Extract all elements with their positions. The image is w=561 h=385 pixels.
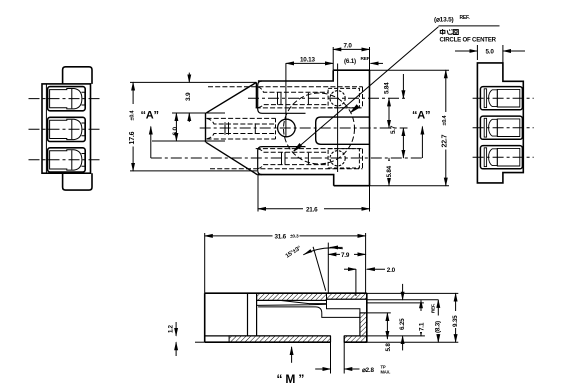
hatch divider [326, 293, 328, 303]
extension line right top (22.7) [370, 69, 450, 71]
svg-text:5.7: 5.7 [390, 125, 397, 134]
right view cavity 2 [473, 116, 534, 139]
top terminal box dashed [328, 88, 359, 107]
svg-text:5.84: 5.84 [384, 82, 391, 94]
text 5.84 bottom [386, 161, 394, 178]
top wall hatch left [257, 293, 327, 300]
right view center line 2 [473, 127, 534, 129]
top channel center line [248, 97, 408, 99]
bottom boss outline [258, 147, 306, 175]
hole edges [330, 336, 332, 342]
top boss outline [258, 81, 306, 113]
text 7.1 [418, 311, 426, 332]
vertical line through top/bottom circles [337, 64, 339, 173]
rear block right edge [256, 293, 258, 336]
main body right edge [369, 70, 371, 186]
svg-text:7.0: 7.0 [344, 43, 353, 50]
top channel H tick [277, 92, 279, 105]
middle channel stop tick [254, 123, 256, 133]
section left edge [204, 293, 206, 342]
svg-text:±0.3: ±0.3 [290, 234, 299, 240]
extension line right bottom (22.7) [370, 185, 450, 187]
ext lines right side [367, 292, 459, 294]
wedge lower line [257, 304, 327, 305]
svg-text:REF.: REF. [361, 56, 371, 62]
svg-text:9.35: 9.35 [452, 315, 459, 327]
main body bottom edge right portion [334, 185, 370, 187]
nose top edge + 6.0 ext [172, 112, 225, 114]
top channel stop tick [307, 93, 309, 104]
top wall hatch right [327, 293, 367, 299]
dim 7.1 [420, 300, 422, 336]
svg-text:5.0: 5.0 [486, 49, 495, 56]
text 7.9 [340, 251, 354, 259]
top-left step of right portion [258, 70, 333, 81]
text 17.6 [127, 104, 135, 147]
middle channel H tick [224, 122, 226, 134]
bottom-left step of right portion [257, 175, 334, 186]
right view terminal 3 [484, 148, 486, 167]
top wall bottom line left [257, 299, 327, 301]
text 21.6 [303, 204, 324, 213]
hatched areas [229, 293, 367, 342]
left view terminal 1 [50, 89, 82, 109]
dim (8.3) [437, 300, 439, 342]
svg-text:±0.4: ±0.4 [442, 114, 448, 125]
text 31.6 [273, 232, 300, 241]
dim 6.25 [386, 313, 388, 339]
section top edge [205, 292, 367, 294]
bottom circle (dashed) [330, 151, 345, 166]
svg-text:21.6: 21.6 [306, 206, 318, 213]
right view center line 1 [473, 97, 534, 99]
bottom terminal box dashed [328, 149, 359, 168]
A arrow left [150, 127, 152, 159]
A arrow right [421, 127, 423, 159]
dim 10.13 [286, 62, 333, 64]
svg-text:17.6: 17.6 [129, 131, 136, 144]
angle 15 deg vertical ref [327, 243, 329, 294]
text 22.7 [440, 112, 447, 150]
dim 2.0 [355, 269, 357, 296]
svg-text:MAX.: MAX. [381, 369, 391, 374]
svg-text:2.0: 2.0 [387, 267, 396, 274]
dim mid-bottom [402, 128, 404, 158]
dim 5.7 [388, 98, 390, 128]
dim 5.8 arrows [402, 284, 404, 300]
svg-text:(6.1): (6.1) [344, 58, 356, 65]
left portion top edge + 17.6 extension [130, 81, 256, 83]
dim 21.6 [257, 175, 259, 212]
left view center line 3 [29, 159, 101, 161]
left view center line 2 [29, 128, 101, 130]
rear cutout window [316, 117, 370, 144]
wedge upper line [257, 300, 327, 303]
left view cavity 1 [29, 87, 101, 111]
text (8.3) REF. [433, 316, 442, 335]
svg-text:7.1: 7.1 [418, 322, 425, 331]
left view top tab [63, 67, 92, 84]
leader line for circle of center [294, 26, 500, 151]
bottom wall hatch right [344, 336, 367, 342]
bottom channel stop tick [307, 153, 309, 164]
svg-text:CIRCLE OF CENTER: CIRCLE OF CENTER [440, 37, 497, 44]
dim 7.0 [332, 47, 334, 70]
left view body outline [42, 84, 91, 173]
svg-text:6.25: 6.25 [399, 318, 406, 330]
vertical line through middle circle (10.13 ext) [285, 63, 287, 137]
M arrow [291, 347, 293, 363]
right view center line 3 [473, 156, 534, 158]
bottom wall hatch left [229, 336, 330, 342]
svg-text:“A”: “A” [141, 110, 159, 122]
dim (6.1) arrow [371, 62, 384, 64]
right view terminal 1 [484, 89, 486, 108]
nose bottom edge + 6.0 ext [152, 140, 225, 142]
middle circle (solid) [278, 119, 296, 137]
middle channel (dashed) [200, 118, 408, 139]
svg-text:(⌀13.5): (⌀13.5) [434, 17, 454, 24]
dim 31.6 [204, 233, 206, 293]
right view cavity 1 [473, 87, 534, 110]
svg-text:3.9: 3.9 [185, 92, 192, 101]
svg-text:(8.3): (8.3) [435, 321, 442, 333]
bottom channel (dashed) [210, 149, 363, 169]
middle channel center line [200, 127, 408, 129]
angle 15 deg slant line [313, 247, 326, 291]
vertical edge at chamfer top [255, 82, 257, 108]
section line A-A [151, 127, 423, 159]
right wall hatch column [360, 313, 367, 336]
bottom wall top line [205, 335, 331, 337]
bottom wall lip lines [195, 341, 205, 343]
svg-text:1.2: 1.2 [169, 324, 175, 333]
left view cavity 2 [29, 117, 101, 141]
label CJK center circle (drawn strokes) [440, 29, 458, 35]
slot floor with radius [258, 307, 360, 318]
text 9.35 [450, 311, 459, 328]
left view center line 1 [29, 98, 101, 100]
svg-text:31.6: 31.6 [275, 233, 287, 240]
dim 1.2 [175, 322, 177, 336]
dim 7.9 [328, 253, 365, 255]
left view cavity 3 [29, 148, 101, 172]
right view body outline [477, 63, 523, 183]
angle arc [303, 248, 343, 255]
section right edge [366, 293, 368, 342]
svg-text:22.7: 22.7 [442, 134, 449, 147]
dim 5.0 [455, 45, 525, 78]
left view bottom tab [63, 173, 92, 190]
bottom channel H tick [281, 152, 283, 165]
svg-text:“ M ”: “ M ” [277, 372, 305, 385]
dim 5.84 bottom [388, 158, 390, 186]
left portion bottom edge + 17.6 extension [130, 170, 257, 172]
svg-text:10.13: 10.13 [300, 57, 315, 64]
top wall bottom line right [327, 298, 367, 300]
section bottom edge [205, 341, 331, 343]
left view terminal 2 [50, 119, 82, 139]
dim 3.9 [188, 73, 190, 83]
rear block inner line [247, 293, 249, 336]
angle right arrow [330, 246, 343, 248]
top circle (dashed) [330, 91, 345, 106]
svg-text:⌀2.8: ⌀2.8 [362, 367, 374, 374]
circle of center (big dashed circle) [284, 93, 355, 164]
dim 22.7 [445, 70, 447, 186]
bottom view dimensions [176, 233, 458, 374]
dim 6.0 [175, 113, 177, 141]
dim 5.84 top [402, 74, 404, 98]
svg-text:REF.: REF. [460, 15, 471, 21]
dim phi 2.8 hole [330, 342, 332, 373]
top chamfer diagonal [206, 82, 256, 112]
bottom chamfer diagonal [206, 142, 257, 174]
dim 9.35 [455, 293, 457, 342]
main body top edge right portion [333, 69, 369, 71]
svg-text:6.0: 6.0 [172, 126, 179, 135]
right wall column outline [360, 313, 367, 336]
top channel (dashed) [208, 87, 408, 108]
left view terminal 3 [50, 150, 82, 170]
dim 17.6 [132, 82, 134, 170]
svg-text:“A”: “A” [412, 110, 430, 122]
svg-text:5.84: 5.84 [386, 165, 393, 177]
right view cavity 3 [473, 146, 534, 169]
inner step to slot [327, 304, 360, 313]
svg-text:5.8: 5.8 [385, 343, 392, 352]
left view inner wall line [45, 84, 47, 173]
svg-text:7.9: 7.9 [341, 252, 350, 259]
svg-text:REF.: REF. [431, 304, 436, 313]
nose tip face [205, 113, 207, 143]
right view terminal 2 [484, 118, 486, 137]
svg-text:±0.4: ±0.4 [129, 109, 135, 120]
